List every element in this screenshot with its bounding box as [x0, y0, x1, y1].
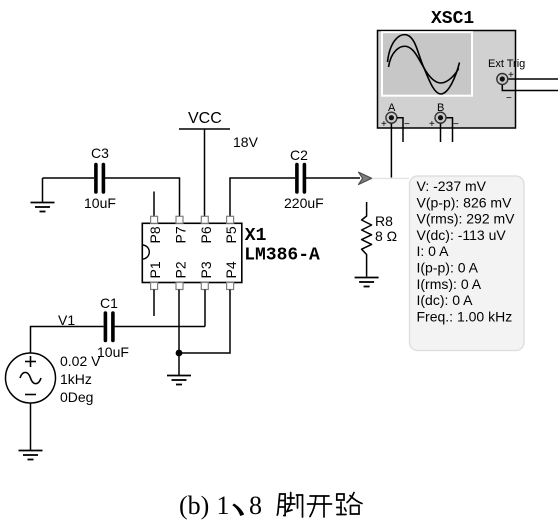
- wire scope B minus stub: [447, 118, 453, 142]
- svg-text:XSC1: XSC1: [431, 9, 474, 29]
- ground (pin2/pin4): [167, 376, 191, 385]
- svg-text:+: +: [381, 119, 387, 130]
- capacitor C2: [284, 147, 324, 211]
- source V1: [6, 353, 102, 405]
- svg-text:P4: P4: [223, 261, 239, 278]
- wire ext trig -: [502, 85, 558, 91]
- wire C2 to probe: [306, 177, 360, 179]
- svg-text:P8: P8: [147, 226, 163, 243]
- svg-text:V1: V1: [58, 312, 75, 328]
- op-amp IC X1 LM386-A: [142, 216, 320, 289]
- wire ground to C3: [43, 177, 95, 179]
- capacitor C3: [84, 145, 116, 211]
- hanzi lu (road): [337, 493, 362, 515]
- svg-text:VCC: VCC: [188, 110, 222, 127]
- wire scope B plus stub: [440, 124, 442, 143]
- svg-text:P5: P5: [223, 226, 239, 243]
- wire V1 to C1: [31, 327, 104, 354]
- probe arrow: [359, 172, 372, 184]
- capacitor C1: [97, 295, 129, 360]
- ideographic comma: [232, 504, 244, 517]
- resistor R8: [362, 202, 398, 277]
- wire V1 to ground: [30, 403, 32, 450]
- junction dot: [176, 350, 183, 357]
- svg-text:I(p-p): 0 A: I(p-p): 0 A: [417, 260, 479, 276]
- svg-text:X1: X1: [245, 226, 267, 246]
- svg-text:10uF: 10uF: [97, 344, 129, 360]
- svg-text:I(dc): 0 A: I(dc): 0 A: [417, 292, 474, 308]
- svg-text:C3: C3: [91, 145, 109, 161]
- svg-text:0.02 V: 0.02 V: [60, 353, 101, 369]
- wire pin4 to junction: [179, 290, 230, 354]
- wire pin5 to C2: [230, 178, 295, 217]
- svg-text:LM386-A: LM386-A: [244, 246, 320, 266]
- svg-text:8 Ω: 8 Ω: [375, 228, 397, 244]
- svg-text:P1: P1: [147, 261, 163, 278]
- wire C1 to pin3: [115, 326, 206, 328]
- wire VCC to pin6: [204, 129, 206, 217]
- svg-text:(b): (b): [179, 491, 209, 520]
- svg-text:V: -237 mV: V: -237 mV: [417, 178, 487, 194]
- wire pin3 to input: [204, 290, 206, 327]
- probe readout box: [410, 176, 525, 351]
- svg-text:18V: 18V: [233, 134, 259, 150]
- svg-text:Freq.: 1.00 kHz: Freq.: 1.00 kHz: [417, 308, 513, 324]
- svg-text:−: −: [404, 119, 410, 130]
- svg-text:P2: P2: [173, 261, 189, 278]
- svg-text:P7: P7: [173, 226, 189, 243]
- svg-text:0Deg: 0Deg: [60, 389, 93, 405]
- svg-text:−: −: [506, 93, 512, 104]
- ground (V1): [19, 451, 43, 460]
- wire scope A minus stub: [397, 118, 403, 142]
- oscilloscope XSC1: [378, 9, 526, 130]
- svg-text:10uF: 10uF: [84, 195, 116, 211]
- wire pin2 to ground: [178, 290, 180, 376]
- svg-text:R8: R8: [375, 213, 393, 229]
- svg-text:V(dc): -113 uV: V(dc): -113 uV: [417, 227, 507, 243]
- ground (C3 left): [31, 178, 55, 212]
- hanzi kai (open): [308, 496, 332, 517]
- svg-text:8: 8: [249, 491, 262, 520]
- wire pin8 open stub: [153, 192, 155, 217]
- svg-text:P3: P3: [198, 261, 214, 278]
- wire (light) probe to node: [371, 177, 409, 179]
- hanzi jiao (foot): [277, 493, 302, 518]
- wire ext trig +: [509, 78, 558, 80]
- svg-text:Ext Trig: Ext Trig: [488, 58, 525, 70]
- wire scope A to output node: [390, 124, 392, 178]
- ground (R8): [355, 278, 379, 287]
- wire pin1 open stub: [153, 290, 155, 317]
- svg-text:I: 0 A: I: 0 A: [417, 243, 450, 259]
- caption (b) 1、8 pins open: [179, 491, 362, 520]
- svg-text:+: +: [429, 119, 435, 130]
- svg-text:V(p-p): 826 mV: V(p-p): 826 mV: [417, 194, 513, 210]
- svg-text:1kHz: 1kHz: [60, 371, 92, 387]
- svg-text:−: −: [453, 119, 459, 130]
- power VCC: [179, 110, 259, 150]
- svg-text:1: 1: [217, 491, 230, 520]
- svg-text:C1: C1: [100, 295, 118, 311]
- svg-text:220uF: 220uF: [284, 195, 324, 211]
- svg-text:I(rms): 0 A: I(rms): 0 A: [417, 276, 482, 292]
- svg-text:V(rms): 292 mV: V(rms): 292 mV: [417, 211, 516, 227]
- svg-text:P6: P6: [198, 226, 214, 243]
- svg-text:C2: C2: [290, 147, 308, 163]
- wire C3 to pin7: [105, 178, 180, 217]
